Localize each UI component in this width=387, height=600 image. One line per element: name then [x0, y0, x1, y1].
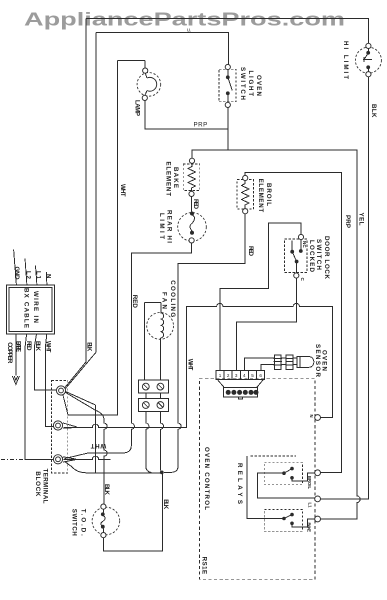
label BROIL ELEMENT [257, 179, 272, 213]
svg-text:OVEN: OVEN [255, 75, 262, 97]
wire oven light switch bottom [227, 108, 229, 151]
svg-text:PRP: PRP [344, 215, 351, 228]
terminal block dashed box [52, 381, 68, 473]
relay 2 bake [264, 510, 302, 532]
svg-text:BLK: BLK [86, 342, 93, 352]
coil of cooling fan [160, 313, 163, 338]
TOD switch [92, 504, 120, 538]
oven light switch [219, 64, 236, 107]
BX input wires [14, 249, 47, 285]
svg-text:WIRE IN: WIRE IN [32, 291, 39, 324]
wire pin4 to sensor [244, 358, 274, 370]
svg-text:BROIL: BROIL [307, 476, 312, 489]
svg-text:AppliancePartsPros.com: AppliancePartsPros.com [24, 9, 345, 30]
wire lug A-B links [146, 390, 161, 401]
svg-text:BX CABLE: BX CABLE [23, 288, 30, 328]
terminal L1 [315, 496, 321, 502]
svg-text:BLK: BLK [34, 341, 41, 352]
wire BX bare ground [15, 334, 17, 376]
wire L1 left descent to terminal block [65, 18, 86, 388]
oven sensor bulb [297, 357, 314, 368]
svg-text:L1: L1 [308, 503, 313, 509]
wire hi-limit BLK descent [321, 77, 369, 499]
oven sensor connector block 1 [274, 355, 282, 369]
svg-text:1: 1 [219, 373, 222, 378]
svg-text:COOLING: COOLING [169, 280, 176, 317]
relay 1 broil [264, 463, 302, 485]
wire dash-dot stub [1, 459, 24, 461]
svg-text:BARE: BARE [14, 341, 21, 352]
svg-text:FAN: FAN [160, 292, 167, 310]
terminal N [315, 415, 321, 421]
label REAR HI LIMIT [158, 210, 173, 243]
wire relay1 output to broil terminal [292, 473, 315, 481]
wire relay2 output to bake terminal [292, 519, 315, 527]
svg-text:3: 3 [235, 373, 238, 378]
wire bake feed YEL bus [192, 150, 360, 519]
wire BX wht to T2 [46, 334, 55, 426]
wire L1 top bus [86, 18, 369, 43]
svg-text:6: 6 [259, 373, 262, 378]
wire T1 fan [66, 392, 96, 473]
svg-text:5: 5 [251, 373, 254, 378]
oven sensor connector block 2 [285, 355, 293, 369]
svg-text:ELEMENT: ELEMENT [257, 179, 264, 213]
svg-text:NC: NC [302, 241, 307, 248]
wire relay link dashed [251, 455, 297, 457]
svg-text:BLK: BLK [370, 104, 377, 118]
svg-text:PRP: PRP [194, 121, 208, 128]
svg-text:YEL: YEL [358, 213, 365, 226]
svg-text:ELEMENT: ELEMENT [165, 162, 172, 197]
svg-text:BLK: BLK [162, 499, 169, 510]
wire relay2 common riser [247, 456, 284, 519]
svg-text:RED: RED [25, 341, 32, 351]
broil element [237, 175, 254, 213]
svg-text:RED: RED [247, 246, 254, 257]
svg-text:N: N [45, 274, 52, 279]
label BAKE ELEMENT [165, 162, 180, 197]
svg-text:SWITCH: SWITCH [239, 67, 246, 101]
svg-text:WHT: WHT [119, 184, 126, 197]
svg-text:RED: RED [131, 295, 138, 309]
svg-text:N: N [309, 415, 314, 418]
wire BX red [25, 334, 54, 459]
label T.O.D. SWITCH [71, 509, 87, 537]
wire bottom L1 bus [63, 423, 161, 473]
door lock switch [285, 234, 307, 278]
label COOLING FAN [160, 280, 176, 317]
wire oven light switch feed [66, 33, 229, 389]
wire door lock top to pin1 [220, 223, 301, 370]
wire pin6 to sensor [261, 364, 274, 370]
bake element [183, 158, 200, 196]
label DOOR LOCK SWITCH LOCKED [308, 236, 330, 280]
wire bake bottom [191, 197, 193, 212]
connector plug [218, 380, 264, 399]
pin numbers [219, 373, 263, 378]
wire relay1 common to L1 [258, 473, 315, 498]
svg-text:GND: GND [13, 267, 20, 281]
svg-text:COPPER: COPPER [6, 342, 13, 364]
wire lamp WHT descent [63, 60, 118, 414]
lug block B [138, 399, 168, 412]
svg-text:LOCKED: LOCKED [308, 240, 315, 273]
BX cable box [6, 285, 54, 334]
svg-text:SWITCH: SWITCH [71, 509, 78, 537]
ground [12, 376, 19, 385]
svg-text:WHT: WHT [90, 442, 106, 449]
wire cooling fan bracket [144, 303, 161, 381]
wire rear hi limit bottom RED [65, 243, 192, 459]
svg-text:BLOCK: BLOCK [34, 471, 41, 497]
terminal T1 [56, 386, 65, 395]
wire TOD return BLK [103, 474, 162, 551]
label OVEN SENSOR [314, 344, 328, 378]
rear hi limit [178, 212, 207, 243]
svg-text:WHT: WHT [187, 359, 194, 371]
lug block A [138, 380, 168, 393]
svg-text:BAKE: BAKE [172, 167, 179, 188]
terminal BROIL [315, 470, 321, 476]
terminal T2 [53, 421, 62, 430]
wire BX blk to T1 [35, 334, 57, 390]
svg-text:L1: L1 [35, 271, 42, 280]
svg-text:OVEN CONTROL: OVEN CONTROL [203, 447, 210, 510]
wire TOD feed BLK [66, 393, 108, 505]
svg-text:SWITCH: SWITCH [315, 239, 322, 271]
svg-text:4: 4 [243, 373, 246, 378]
wire broil bottom RED [164, 214, 245, 473]
label GND L2 L1 N [13, 267, 51, 281]
svg-text:LAMP: LAMP [133, 100, 140, 116]
svg-text:BAKE: BAKE [307, 523, 312, 533]
svg-text:TERMINAL: TERMINAL [41, 469, 48, 504]
svg-text:SENSOR: SENSOR [314, 344, 321, 378]
terminal BAKE [315, 516, 321, 522]
oven control dashed box [200, 378, 316, 579]
svg-text:BLK: BLK [103, 484, 110, 496]
label OVEN LIGHT SWITCH [239, 67, 262, 101]
wire lamp bottom PRP [145, 101, 228, 130]
junction dot [160, 471, 164, 475]
wire lamp feed box [118, 60, 146, 68]
wire fan bottom [159, 338, 161, 380]
label TERMINAL BLOCK [34, 469, 49, 504]
connector strip [216, 371, 265, 380]
svg-text:DOOR LOCK: DOOR LOCK [323, 236, 330, 280]
svg-text:RS1E: RS1E [201, 557, 208, 575]
label WHT BLK RED BARE COPPER [6, 341, 52, 364]
wire terminal3 line [64, 456, 111, 459]
svg-text:L2: L2 [25, 271, 32, 280]
wire door lock C to pin3 [236, 278, 296, 370]
svg-text:WHT: WHT [45, 341, 52, 353]
wire broil feed PRP bus [245, 172, 341, 472]
wire lug B down [146, 409, 164, 473]
terminal T3 [53, 455, 62, 464]
svg-text:BROIL: BROIL [265, 183, 272, 206]
svg-text:REAR HI: REAR HI [166, 210, 173, 243]
lamp [137, 68, 161, 101]
wire sensor links [281, 358, 297, 364]
wire neutral bus [64, 303, 333, 427]
label WIRE IN BX CABLE [23, 288, 39, 328]
svg-text:2: 2 [227, 373, 230, 378]
svg-text:RED: RED [192, 199, 199, 210]
cooling fan [147, 313, 174, 340]
hi limit [355, 43, 381, 76]
